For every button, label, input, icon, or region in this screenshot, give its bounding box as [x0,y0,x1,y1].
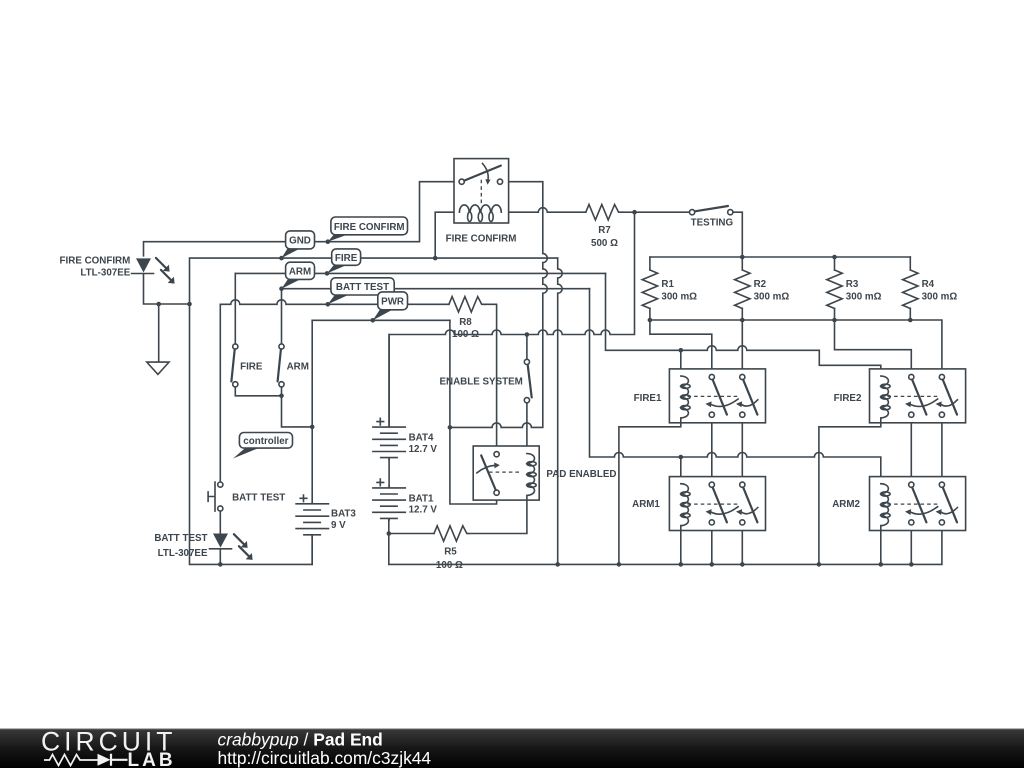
relay ARM1 box [669,477,765,531]
svg-text:FIRE: FIRE [240,362,263,373]
wire ground stem [158,304,160,362]
relay PAD ENABLED switch [494,452,499,457]
wire PWR/BAT3 vertical [311,320,313,502]
relay FIRE2 dashed link [888,395,940,397]
svg-text:100 Ω: 100 Ω [436,560,463,571]
wire GND net riser and horizontal to x=557.7 [190,258,558,304]
svg-text:http://circuitlab.com/c3zjk44: http://circuitlab.com/c3zjk44 [218,748,432,768]
net flag BATT TEST [328,295,349,305]
svg-text:PWR: PWR [381,297,404,308]
wire junction to TESTING switch [635,211,690,213]
relay ARM1 coil [681,484,690,531]
svg-text:TESTING: TESTING [691,217,734,228]
net flag ARM [282,279,302,289]
junction dot bottom bus R4 [908,318,913,323]
wire PWR net horizontal [312,319,450,321]
node GND flag junction dot [279,256,284,261]
relay PAD ENABLED dashed link [489,471,520,473]
relay FIRE1 dashed link [688,395,740,397]
resistor R4 [903,270,918,308]
wire TESTING switch right to top bus [733,212,742,255]
svg-text:controller: controller [243,436,288,447]
svg-text:ARM2: ARM2 [832,499,860,510]
svg-text:12.7 V: 12.7 V [409,505,438,516]
wire PAD ENABLED coil bottom to R5 [468,500,527,533]
wire ENABLE SYSTEM switch bottom to PAD ENABLED coil [526,403,528,454]
relay ARM2 switch 2 [939,482,944,487]
svg-text:ARM: ARM [289,267,311,278]
junction dot bus ARM1 sw2 [740,562,745,567]
svg-text:ARM1: ARM1 [632,499,660,510]
relay ARM2 switch 1 [909,482,914,487]
resistor R3 [827,270,842,308]
svg-text:BAT3: BAT3 [331,509,356,520]
resistor R2 [735,270,750,308]
relay U1 FIRE CONFIRM box [454,159,509,223]
wire relay U1 left terminal to node FIRE CONFIRM / LED D1 anode (net FIRE CONFIRM) [144,182,460,256]
LED D1 light arrows [156,258,173,282]
svg-text:300 mΩ: 300 mΩ [922,292,958,303]
svg-text:FIRE2: FIRE2 [834,393,862,404]
wire relay U1 coil right to R7 with hop over PWR riser [509,208,586,213]
wire FIRE1 sw1 bottom to ARM1 sw1 top [711,417,713,482]
wire R1 leads [649,257,651,320]
node FIRE flag junction dot [325,271,330,276]
wire BAT4 bottom to BAT1 top [388,459,390,486]
svg-text:LTL-307EE: LTL-307EE [158,548,208,559]
svg-text:PAD ENABLED: PAD ENABLED [546,469,616,480]
wire FIRE2 sw1 bottom to ARM2 sw1 top [910,417,912,482]
footer bar [0,729,1024,768]
junction dot bus ARM1 sw1 [710,562,715,567]
wire R3 leads [834,257,836,320]
wire FIRE net left drop to FIRE switch [234,273,236,344]
wire R8 drop from BATT TEST net to PAD ENABLED switch top [485,304,497,451]
junction dot bus ARM1 coil [679,562,684,567]
junction dot bottom bus R1 [648,318,653,323]
resistor R7 [586,205,622,220]
svg-text:500 Ω: 500 Ω [591,238,618,249]
junction dot bus ARM2 coil [879,562,884,567]
relay PAD ENABLED box [473,446,539,500]
net flag GND [282,249,301,259]
wire bottom bus R1-R4 to FIRE2 sw2 drop [650,320,942,374]
relay U1 switch [459,179,464,184]
relay U1 coil [459,205,501,222]
svg-text:FIRE CONFIRM: FIRE CONFIRM [334,222,405,233]
junction dot controller net on PWR vertical [310,425,315,430]
wire ARM net left drop to ARM switch [281,289,283,344]
wire pad node to relay column riser with hops, up to relay U1 right terminal [450,182,547,428]
resistor R1 [642,270,657,308]
relay ARM1 switch 2 [740,482,745,487]
wire ARM net horizontal to x=589.5 [282,288,590,290]
relay FIRE2 box [870,369,966,423]
svg-text:300 mΩ: 300 mΩ [846,292,882,303]
junction dot ARM1 coil top [679,455,684,460]
junction dot BAT1/R5 [387,531,392,536]
wire ARM2 coil bottom to bus [880,531,882,565]
wire PWR right vertical down to pad-relay node [449,320,451,427]
svg-text:crabbypup / Pad End: crabbypup / Pad End [218,730,383,750]
toggle switch FIRE [233,344,238,349]
svg-text:R5: R5 [444,547,457,558]
net flag FIRE CONFIRM [328,234,348,241]
wire FIRE2 sw2 bottom to ARM2 sw2 top [941,417,943,482]
wire FIRE1 coil top stub [680,350,682,376]
junction dot GND riser [187,302,192,307]
wire R2 leads [741,257,743,320]
wire ARM1 coil top stub [680,457,682,484]
toggle switch ARM [279,344,284,349]
wire ARM1 sw2 bottom to bus [741,525,743,564]
relay ARM1 dashed link [688,503,740,505]
wire pad node U-shape to PAD ENABLED switch bottom [450,427,497,504]
svg-text:FIRE CONFIRM: FIRE CONFIRM [446,234,517,245]
svg-text:BAT1: BAT1 [409,494,434,505]
relay ARM1 switch 1 [709,482,714,487]
ground symbol [147,362,169,374]
svg-text:100 Ω: 100 Ω [452,329,479,340]
svg-text:LTL-307EE: LTL-307EE [80,267,130,278]
junction dot bottom bus R3 [832,318,837,323]
junction dot coil-left on GND wire [433,256,438,261]
junction dot FIRE1 coil top [679,348,684,353]
relay PAD ENABLED coil [527,454,536,501]
wire R4 leads [909,257,911,320]
relay ARM2 dashed link [888,503,940,505]
CircuitLab logo resistor-diode symbol [44,755,98,766]
wire R1 jog to FIRE1 sw1 [650,320,712,374]
wire ARM net right drop and ARM coil bus y=457 with hops [590,289,881,484]
svg-text:FIRE CONFIRM: FIRE CONFIRM [60,256,131,267]
LED D2 BATT TEST [213,534,228,548]
wire ARM switch bottom down to controller net corner [282,387,313,427]
toggle switch TESTING [690,210,695,215]
junction dot pad-relay node [448,425,453,430]
junction dot bus FIRE1 coil drop [617,562,622,567]
junction dot top bus R3 [832,255,837,260]
relay FIRE1 switch 2 [740,374,745,379]
node ARM flag junction dot [279,286,284,291]
resistor R8 [449,297,485,312]
svg-text:LAB: LAB [128,750,176,768]
wire LED D1 cathode to ground and riser [144,274,190,304]
junction dot R7 right [632,210,637,215]
wire FIRE net right drop and FIRE coil bus y=350.3 with hops [606,273,881,375]
wire BAT3 bottom lead [311,536,313,564]
svg-text:300 mΩ: 300 mΩ [661,292,697,303]
svg-text:FIRE: FIRE [335,253,358,264]
junction dot ENABLE SYSTEM tap [525,332,530,337]
junction dot bus FIRE2 coil drop [817,562,822,567]
wire FIRE switch bottom jog to ARM column [235,387,281,396]
wire R5 left lead to BAT1 node [389,533,434,535]
wire BAT1 bottom lead [388,520,390,534]
junction dot FIRE/ARM jog [279,394,284,399]
junction dot bus ARM2 sw1 [909,562,914,567]
junction dot bottom-left bus at BATT TEST LED [218,562,223,567]
svg-text:FIRE1: FIRE1 [634,393,662,404]
svg-text:9 V: 9 V [331,520,346,531]
svg-text:R8: R8 [459,317,472,328]
wire ENABLE SYSTEM tap to switch top [526,335,528,360]
relay FIRE2 switch 1 [909,374,914,379]
svg-text:R1: R1 [661,279,674,290]
wire ARM2 sw2 bottom stub [941,525,943,531]
svg-text:BATT TEST: BATT TEST [154,533,207,544]
svg-text:R3: R3 [846,279,859,290]
wire FIRE1 coil bottom jog to bottom bus [619,423,681,565]
svg-text:BATT TEST: BATT TEST [232,492,285,503]
junction dot ground branch [156,302,161,307]
wire R3 jog to FIRE2 sw1 [835,320,912,374]
wire R7 right lead to junction [622,211,635,213]
wire FIRE net horizontal from switch column to x=605.5 [235,272,605,274]
wire FIRE1 sw2 bottom to ARM1 sw2 top [741,417,743,482]
junction dot bus GND column [555,562,560,567]
svg-text:BAT4: BAT4 [409,433,434,444]
relay ARM2 coil [881,484,890,531]
wire ARM1 sw1 bottom to bus [711,525,713,564]
battery BAT4 [373,335,405,460]
wire R2 drop to FIRE1 sw2 [741,320,743,374]
node BATT TEST flag junction dot [326,302,331,307]
relay FIRE1 box [669,369,765,423]
wire BATT TEST column down to pushbutton [219,304,221,482]
relay FIRE1 switch 1 [709,374,714,379]
wire BAT1 node down to bottom bus, bus to right end, up to ARM2 sw2 [389,531,942,565]
battery BAT3 [296,502,328,536]
svg-text:GND: GND [289,236,311,247]
pushbutton BATT TEST [218,482,223,487]
junction dot bottom bus R2 [740,318,745,323]
net flag PWR [373,309,393,320]
node FIRE CONFIRM junction dot [326,239,331,244]
wire R7 drop and BAT4 horizontal with hops [389,212,634,425]
wire GND net vertical drop x=557.7 with hops over FIRE and ARM wires [558,258,563,564]
wire pushbutton bottom to LED D2 [219,511,221,533]
wire relay U1 coil left to GND wire [435,212,454,258]
LED D2 light arrows [234,534,251,558]
wire LED D2 cathode to bottom-left bus [219,550,221,564]
svg-text:300 mΩ: 300 mΩ [754,292,790,303]
net flag FIRE [327,265,347,274]
wire ARM1 coil bottom to bus [680,531,682,565]
wire FIRE2 coil bottom jog to bottom bus [819,423,881,565]
junction dot top bus R2/TESTING [740,255,745,260]
relay FIRE1 coil [681,376,690,423]
battery BAT1 [373,486,405,520]
LED D1 FIRE CONFIRM [136,258,151,272]
relay FIRE2 switch 2 [939,374,944,379]
wire top bus R1-R4 [650,256,910,258]
svg-text:R7: R7 [598,225,611,236]
resistor R5 [434,526,468,541]
svg-text:R4: R4 [922,279,935,290]
toggle switch ENABLE SYSTEM [524,359,529,364]
wire ARM2 sw1 bottom to bus [910,525,912,564]
wire left long vertical from riser to bottom-left bus [190,304,313,564]
svg-text:R2: R2 [754,279,767,290]
wire BATT TEST net horizontal with hops over FIRE and ARM columns [220,300,449,305]
net flag controller [233,448,260,459]
svg-text:ENABLE SYSTEM: ENABLE SYSTEM [440,376,523,387]
node PWR flag junction dot [371,318,376,323]
relay ARM2 box [870,477,966,531]
svg-text:ARM: ARM [287,362,309,373]
relay FIRE2 coil [881,376,890,423]
svg-text:12.7 V: 12.7 V [409,444,438,455]
